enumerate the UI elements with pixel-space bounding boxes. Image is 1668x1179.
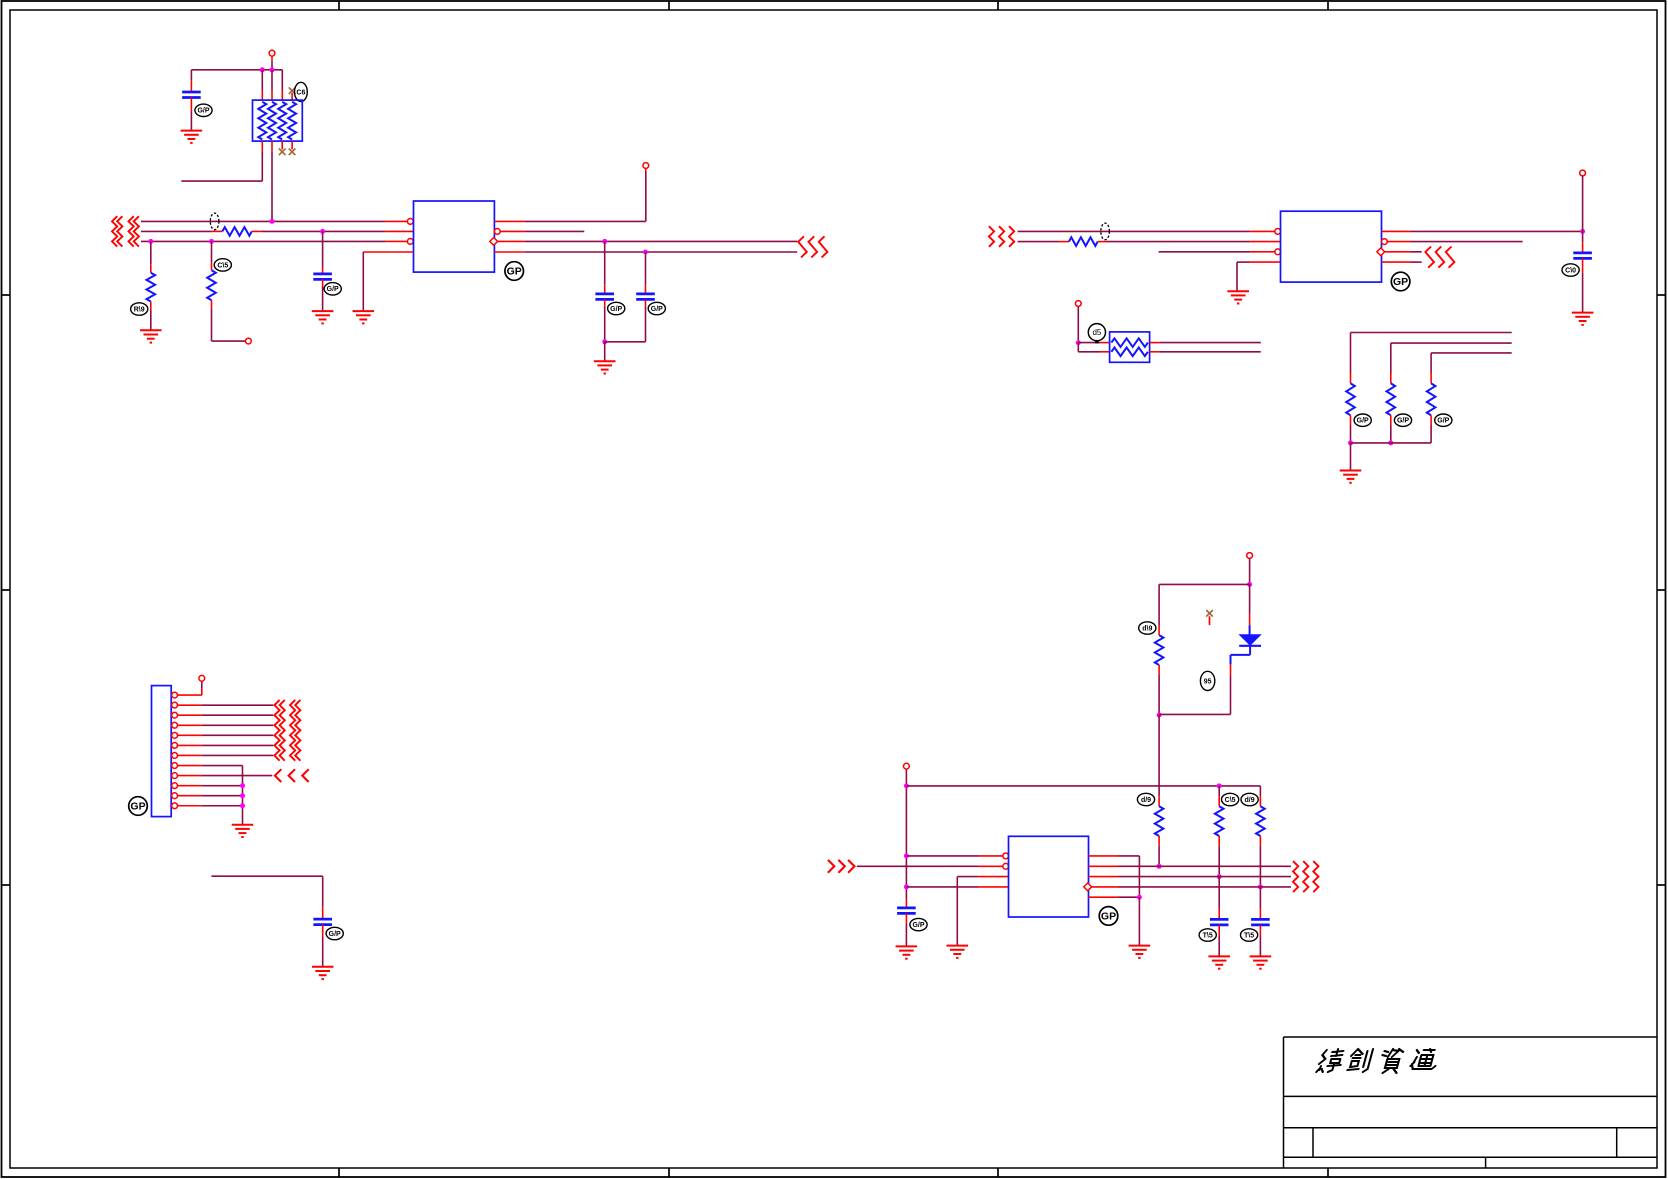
terminal pin P7 [1247,553,1253,559]
label C5 [1562,264,1579,276]
capacitor C8 [1210,919,1229,925]
wire cap C2 branch [322,231,324,274]
ground GND1 [181,131,203,143]
wire J1 pin 11 to ground rail [202,795,243,797]
resistor network RN2 body [1110,332,1150,362]
wire net row1 to U1 [141,220,408,222]
wire top link to R8 [1159,583,1250,585]
wire R-pack pin3 stub [281,70,283,100]
wire RN2-A out [1150,342,1261,344]
label R9 [1137,793,1154,805]
wire R8 top [1158,584,1160,635]
wire U1 row4 gnd stub [363,252,413,311]
wire U2 out row2 stub [1387,241,1522,243]
wire capB branch [645,252,647,294]
wire R-pack pin1 stub [261,70,263,100]
label R3 [214,259,231,271]
no-connect X on RN1-D bottom [289,141,296,155]
ground GND9 [232,825,254,837]
connector J1 pin 11 [172,793,202,799]
pin circle U1 out row2 [494,229,500,235]
wire R2 top [150,241,152,272]
wire C3 down [604,299,606,341]
svg-text:G/P: G/P [327,286,339,293]
wire R7 bottom [1430,415,1432,443]
junction rail U3 rowD [904,884,909,889]
capacitor C3 [595,294,614,300]
svg-text:C\5: C\5 [217,262,228,269]
pin circle U3 rowA [1003,853,1009,859]
capacitor C1 [182,92,201,98]
wire power rail vertical [905,769,907,908]
terminal pin P4 [1580,170,1586,176]
wire VOUT up to terminal [1582,176,1584,232]
ground GND3 [312,311,334,323]
wire C5 to ground [1582,258,1584,312]
junction rail top link [904,783,909,788]
junction diode branch [1247,582,1252,587]
label J1 GP [129,797,148,816]
wire top rail link [906,785,1260,787]
net label row1 [210,213,219,230]
resistor RN1-A [258,102,266,140]
svg-text:C\0: C\0 [1565,267,1576,274]
wire C1 to ground [190,98,192,131]
label U1 GP [505,262,524,281]
label G/P R7 [1435,414,1452,426]
wire TR row2 left [1018,241,1069,243]
svg-text:d\9: d\9 [1142,625,1152,632]
wire C9 to ground [1259,925,1261,957]
op-amp U2 body [1281,211,1382,282]
wire R-pack pin2 stub [271,70,273,100]
svg-text:d5: d5 [1092,328,1101,337]
wire J1 pin 6 to chevrons [202,744,273,746]
resistor R7 [1427,383,1436,415]
diode D1 [1239,635,1261,646]
terminal pin P2 [246,338,252,344]
connector J1 pin 2 [172,702,202,708]
wire C4 down [605,299,646,341]
junction ground rail pin 10 [240,783,245,788]
wire R8 bottom [1158,665,1160,715]
wire pullup R7 top rail [1431,353,1512,384]
connector J1 pin 12 [172,803,202,809]
capacitor C7 [897,908,916,914]
label R8 [1139,622,1156,634]
ground GND13 [1250,956,1272,968]
ground GND4 [353,311,375,323]
svg-text:GP: GP [1101,911,1116,923]
off-page connector chevrons J1 bus [274,700,300,761]
junction rail R10 [1217,783,1222,788]
junction row3 R2 branch [148,239,153,244]
wire R11 to C9 [1259,887,1261,920]
resistor R9 [1155,806,1164,836]
svg-text:GP: GP [507,266,522,278]
connector J1 pin 9 [172,773,202,779]
wire J1 pin 7 to chevrons [202,754,273,756]
title block frame [1284,1037,1658,1168]
resistor R6 [1387,383,1396,415]
junction row2 cap branch [320,229,325,234]
resistor R2 pulldown [147,273,156,302]
svg-text:G/P: G/P [610,306,622,313]
resistor R1 series [222,227,252,236]
wire resistor common rail [1351,442,1432,444]
wire cap branch [190,70,192,92]
pin diamond U3 out row4 [1084,883,1092,891]
svg-text:G/P: G/P [1357,418,1369,425]
resistor R4 series [1069,237,1098,246]
ground GND2 [140,330,162,342]
off-page chevrons J1 pin9 [275,769,309,782]
off-page connector chevrons TR right [1425,247,1454,268]
resistor R11 [1256,806,1265,836]
off-page chevrons BR output [1293,861,1319,892]
wire net row2 to U1 [252,230,414,232]
wire J1 pin1 to terminal [201,681,203,695]
wire common to ground [1350,443,1352,471]
pin circle U2 row3 [1275,249,1281,255]
junction node at R-pack pin2 [270,67,275,72]
label G/P C3 [608,302,625,314]
off-page chevrons BR input [828,860,855,873]
resistor RN2-B [1111,348,1148,357]
resistor R8 [1155,635,1164,665]
capacitor C2 [313,274,332,280]
capacitor C4 [636,294,655,300]
svg-text:GP: GP [130,801,145,813]
pin circle U2 row1 [1275,229,1281,235]
wire TR row2 to U2 [1098,241,1281,243]
wire U2 out row4 to chevrons [1382,261,1422,263]
off-page connector chevrons right pair [798,236,827,257]
label G/P R5 [1354,414,1371,426]
ground GND12 [1208,956,1230,968]
wire TR row1 to U2 [1018,230,1275,232]
junction R6 common [1388,440,1393,445]
company logo text Wistron [1316,1049,1440,1073]
svg-text:GP: GP [1393,276,1408,288]
wire TR row3 to U2 [1159,251,1275,253]
wire common to ground [604,342,606,361]
junction row1 RN1-B [270,219,275,224]
junction R8 diode common [1157,713,1162,718]
wire U2 out row3 to chevrons [1385,251,1422,253]
junction R10 row3 [1217,874,1222,879]
junction caps common [602,339,607,344]
svg-text:R\9: R\9 [134,306,145,313]
junction out row3 capA [602,239,607,244]
junction rail U3 rowA [904,853,909,858]
wire U1 out row4 to chevrons [494,251,797,253]
power terminal pin P1 [269,50,275,70]
pin diamond U2 out row3 [1377,248,1385,256]
wire C7 to ground [905,913,907,946]
svg-text:C6: C6 [296,89,305,96]
no-connect X on R-pack pin4 [289,87,296,100]
wire U3 out row3 to chevrons [1089,876,1291,878]
label G/P C6b [326,927,343,939]
wire TR row4 ground stub [1237,262,1281,291]
pin circle U2 out row2 [1382,239,1388,245]
op-amp U3 body [1009,836,1089,917]
resistor network RN1 body [253,100,303,141]
capacitor C9 [1251,919,1270,925]
svg-text:C\5: C\5 [1225,797,1236,804]
ground GND8 [1340,471,1362,483]
svg-text:G/P: G/P [329,931,341,938]
wire J1 pin 2 to chevrons [202,704,273,706]
wire U3 out row4 to chevrons [1092,886,1291,888]
junction row5 jog [1137,895,1142,900]
wire pullup R6 top rail [1391,343,1512,383]
wire RN2 input stubs [1078,343,1109,352]
label D1 [1200,671,1214,690]
wire U3 out row1 jog [1089,856,1140,897]
label G/P C1 [195,104,212,116]
wire R10 to C8 [1218,877,1220,920]
ground GND7 [1572,313,1594,325]
wire R3 to terminal [212,300,246,341]
label R10 C5 [1222,793,1239,805]
label RN2 d5 [1088,324,1105,344]
resistor RN2-A [1111,338,1148,347]
connector J1 pin 7 [172,753,202,759]
label G/P C7 [910,918,927,930]
wire C2 to ground [322,279,324,311]
label G/P C2 [324,283,341,295]
ground GND6 [1227,291,1249,303]
wire C8 to ground [1218,925,1220,957]
wire R6 bottom [1390,415,1392,443]
wire stray net with C6cap [211,876,322,919]
wire J1 pin 4 to chevrons [202,724,273,726]
svg-text:G/P: G/P [912,922,924,929]
wire P7 down [1249,558,1251,584]
label U2 GP [1391,272,1410,291]
wire U3 rowD [906,886,1008,888]
connector J1 pin 3 [172,712,202,718]
capacitor C6b [313,919,332,925]
off-page connector chevrons TR left [989,226,1014,247]
svg-text:d/9: d/9 [1245,797,1255,804]
connector J1 pin 6 [172,743,202,749]
ground GND14 [947,946,969,958]
wire R10 down [1218,836,1220,877]
wire R3 top [211,241,213,270]
terminal pin P8 [904,763,910,769]
resistor R5 [1346,383,1355,415]
pin circle U1 row1 [407,219,413,225]
wire diode anode [1249,584,1251,634]
wire J1 pin9 to chevrons [202,775,272,777]
ground GND11 [896,946,918,958]
svg-text:d/9: d/9 [1141,797,1151,804]
resistor R10 [1215,806,1224,836]
wire jog to ground [1138,897,1140,945]
ground GND15 [1129,946,1151,958]
wire R11 top corner [1259,786,1261,806]
wire R2 to ground [150,302,152,331]
capacitor C5 [1573,253,1592,259]
label RN1 designator C6 [295,82,308,101]
no-connect marker [1206,610,1213,625]
label U3 GP [1099,907,1118,926]
connector J1 body [152,686,172,817]
junction out row4 capB [643,250,648,255]
wire net row3 to U1 [141,240,408,242]
net label TR row1 [1101,223,1110,240]
wire U3 rowA [906,855,1002,857]
svg-text:G/P: G/P [197,108,209,115]
junction ground rail pin 11 [240,793,245,798]
junction ground rail pin 12 [240,803,245,808]
junction node at R-pack pin1 [260,67,265,72]
connector J1 pin 1 [172,692,202,698]
wire U2 out row1 to node [1382,230,1583,232]
resistor RN1-D [288,102,296,140]
label C8 [1199,929,1216,941]
wire P5 down to RN2 [1077,306,1079,342]
junction node VOUT [1580,229,1585,234]
resistor RN1-B [268,102,276,140]
wire capA branch [604,241,606,294]
connector J1 pin 10 [172,783,202,789]
svg-text:G/P: G/P [651,306,663,313]
ground GND10 [312,967,334,979]
connector J1 pin 4 [172,722,202,728]
wire pullup R5 top rail [1351,333,1512,384]
terminal pin P5 [1075,301,1081,307]
wire diode common down to row2 [1158,715,1160,806]
junction R11 row4 [1258,884,1263,889]
svg-text:T\5: T\5 [1244,932,1254,939]
op-amp U1 body [414,201,495,272]
off-page connector chevrons left bus [112,216,139,246]
wire net row2 left segment [141,230,222,232]
label R2 [131,303,148,315]
label R11 d9 [1241,793,1258,805]
label G/P R6 [1394,414,1411,426]
wire U3 rowC gnd [957,877,1008,946]
svg-text:G/P: G/P [1397,418,1409,425]
wire R11 down [1259,836,1261,887]
pin circle U3 rowB [1003,863,1009,869]
junction RN2 pin1 [1076,340,1081,345]
no-connect X on RN1-C bottom [279,141,286,155]
wire J1 pin 3 to chevrons [202,714,273,716]
terminal pin P6 [199,675,205,681]
wire VOUT down to cap [1582,231,1584,253]
wire R9 bottom to row2 [1158,836,1160,866]
wire R10 top [1218,786,1220,806]
wire RN1-B bottom to bus [271,141,273,221]
label G/P C4 [648,302,665,314]
wire U1 out row2 stub [500,230,584,232]
wire U3 out row2 to chevrons [1089,865,1291,867]
wire J1 pin 10 to ground rail [202,785,243,787]
junction R5 common [1348,440,1353,445]
wire power rail [191,69,282,71]
label C9 [1241,929,1258,941]
wire diode cathode jog [1159,646,1250,715]
wire RN2-B out [1150,351,1261,353]
wire U3 rowB input [857,865,1003,867]
svg-text:T\5: T\5 [1203,932,1213,939]
junction R9 row2 [1157,864,1162,869]
ground GND5 [594,361,616,373]
svg-text:G/P: G/P [1437,418,1449,425]
wire R5 bottom [1350,415,1352,443]
wire U3 out row5 stub [1089,896,1140,898]
svg-text:95: 95 [1204,678,1212,685]
junction row3 R3 branch [209,239,214,244]
pin diamond U1 out row3 [490,238,498,246]
wire J1 pin8 to ground rail [202,766,243,825]
wire U1 out row1 to terminal [494,168,645,221]
wire RN1-A bottom stub [181,141,262,181]
wire U1 out row3 to chevrons [498,240,798,242]
terminal pin P3 [643,163,649,169]
connector J1 pin 8 [172,763,202,769]
wire J1 pin 5 to chevrons [202,734,273,736]
wire J1 pin 12 to ground rail [202,805,243,807]
pin circle U1 row3 [407,239,413,245]
resistor R3 pulldown [207,270,216,300]
wire C6b to ground [322,925,324,967]
resistor RN1-C [278,102,286,140]
connector J1 pin 5 [172,732,202,738]
